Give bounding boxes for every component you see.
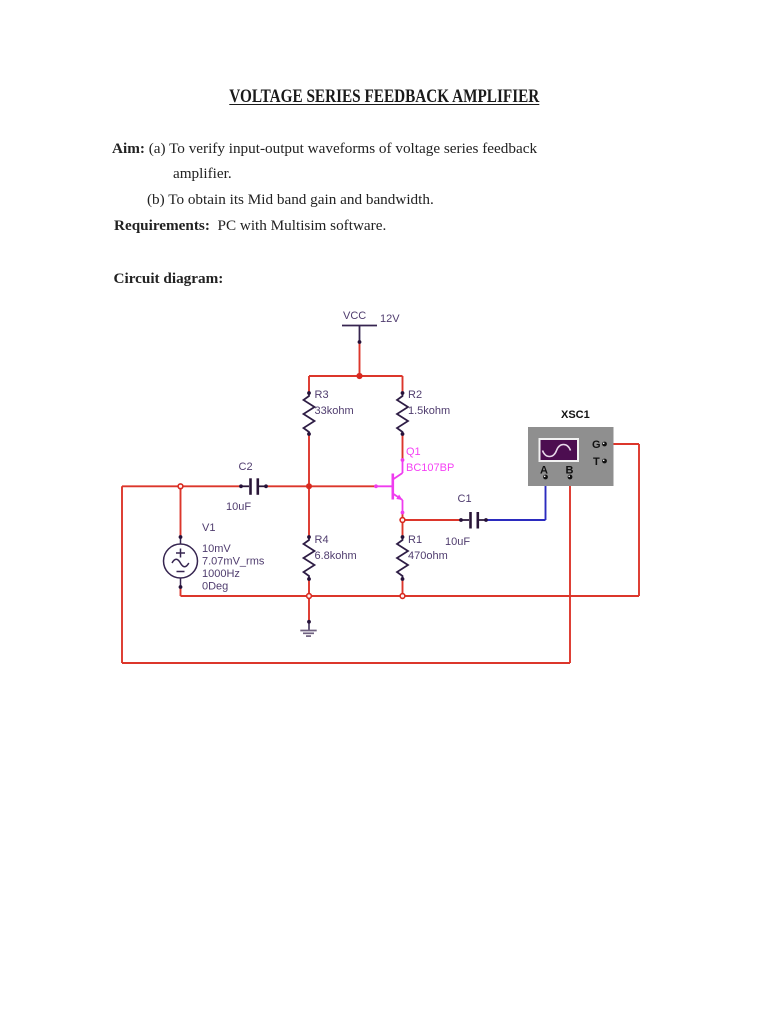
- svg-text:VCC: VCC: [343, 310, 366, 322]
- svg-text:6.8kohm: 6.8kohm: [315, 550, 357, 562]
- svg-text:10uF: 10uF: [445, 536, 470, 548]
- svg-text:Q1: Q1: [406, 446, 421, 458]
- svg-text:T: T: [593, 456, 600, 468]
- svg-text:G: G: [592, 439, 601, 451]
- svg-text:V1: V1: [202, 522, 215, 534]
- svg-text:BC107BP: BC107BP: [406, 462, 454, 474]
- svg-text:10mV: 10mV: [202, 543, 231, 555]
- svg-text:C1: C1: [458, 493, 472, 505]
- svg-text:470ohm: 470ohm: [408, 550, 448, 562]
- svg-text:B: B: [566, 465, 574, 477]
- svg-text:C2: C2: [239, 461, 253, 473]
- svg-text:R2: R2: [408, 389, 422, 401]
- svg-text:12V: 12V: [380, 313, 400, 325]
- svg-text:R3: R3: [315, 389, 329, 401]
- svg-text:1.5kohm: 1.5kohm: [408, 405, 450, 417]
- svg-text:7.07mV_rms: 7.07mV_rms: [202, 556, 265, 568]
- svg-text:10uF: 10uF: [226, 501, 251, 513]
- svg-text:XSC1: XSC1: [561, 409, 590, 421]
- svg-text:0Deg: 0Deg: [202, 581, 228, 593]
- svg-text:R1: R1: [408, 534, 422, 546]
- svg-text:33kohm: 33kohm: [315, 405, 354, 417]
- svg-text:1000Hz: 1000Hz: [202, 568, 240, 580]
- svg-text:R4: R4: [315, 534, 329, 546]
- svg-text:A: A: [540, 465, 548, 477]
